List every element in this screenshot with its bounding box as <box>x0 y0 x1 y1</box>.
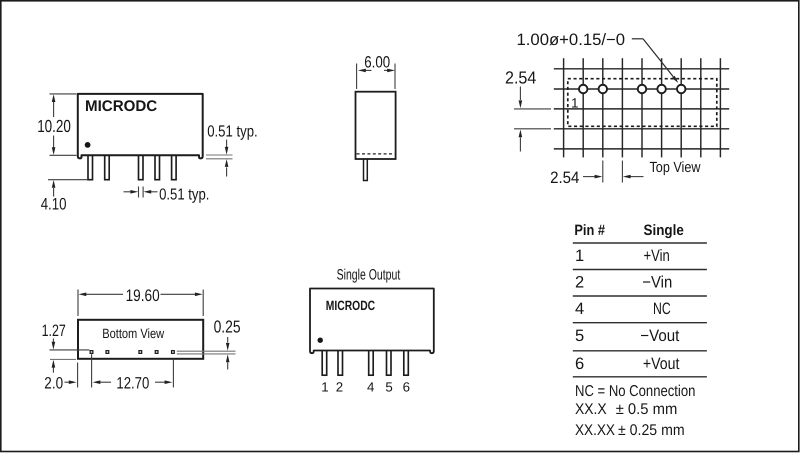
pin hole 2 (top view) <box>599 85 608 94</box>
pin 6 (single output view) <box>404 349 409 375</box>
svg-text:1.27: 1.27 <box>42 322 66 340</box>
pin 5 (single output view) <box>387 349 392 375</box>
svg-text:−Vin: −Vin <box>642 273 672 291</box>
grid line stubs extended below for 2.54 dimension <box>602 161 604 183</box>
pin 4 (side view) <box>139 154 144 180</box>
pin 2 (single output view) <box>338 349 343 375</box>
svg-text:2.54: 2.54 <box>505 68 537 88</box>
svg-text:0.25: 0.25 <box>214 316 241 336</box>
svg-text:NC: NC <box>653 300 671 318</box>
pin1 dot (side view) <box>85 142 91 148</box>
pin pad 6 (bottom view) <box>172 351 175 354</box>
pin pad 1 (bottom view) <box>90 351 93 354</box>
svg-text:4: 4 <box>575 300 584 318</box>
package outline dashed rect (top view) <box>568 79 717 127</box>
svg-text:XX.XX: XX.XX <box>575 422 616 439</box>
svg-text:2: 2 <box>336 379 343 394</box>
svg-text:1: 1 <box>321 379 328 394</box>
svg-text:Pin #: Pin # <box>574 222 605 239</box>
svg-text:Top View: Top View <box>650 160 701 176</box>
dimension 10.20 <box>50 94 77 155</box>
standoff dashed line (end view) <box>357 153 395 155</box>
svg-text:Bottom View: Bottom View <box>102 326 164 341</box>
pin pad 5 (bottom view) <box>155 351 158 354</box>
svg-text:Single: Single <box>644 222 684 239</box>
svg-text:−Vout: −Vout <box>640 327 679 345</box>
svg-text:± 0.25 mm: ± 0.25 mm <box>618 422 685 439</box>
svg-text:4.10: 4.10 <box>41 195 67 214</box>
pin 5 (side view) <box>155 154 160 180</box>
svg-text:2: 2 <box>575 273 584 291</box>
dimension 0.51 typ. (pin width, bottom) <box>124 187 158 198</box>
dimension 2.54 (row pitch, left) <box>514 108 551 110</box>
svg-text:+Vout: +Vout <box>643 355 680 373</box>
module body (side view) <box>78 94 203 158</box>
module body (single output view) <box>310 289 434 354</box>
svg-text:4: 4 <box>367 379 374 394</box>
svg-text:± 0.5 mm: ± 0.5 mm <box>616 401 678 418</box>
pin pad 4 (bottom view) <box>139 351 142 354</box>
pin (end view) <box>364 157 368 181</box>
svg-text:12.70: 12.70 <box>116 374 149 392</box>
pin 1 (single output view) <box>322 349 327 375</box>
pin hole 5 (top view) <box>657 85 666 94</box>
dimension 0.25 <box>177 351 236 354</box>
module body (end view) <box>356 92 396 159</box>
dimension 4.10 <box>48 179 88 181</box>
dimension 19.60 <box>78 290 203 317</box>
pin 4 (single output view) <box>369 349 374 375</box>
pin 2 (side view) <box>105 154 110 180</box>
svg-text:MICRODC: MICRODC <box>85 98 157 115</box>
pin hole 6 (top view) <box>677 85 686 94</box>
svg-text:NC = No Connection: NC = No Connection <box>575 383 695 400</box>
svg-text:10.20: 10.20 <box>37 116 71 136</box>
pin1 dot (single output view) <box>318 338 323 343</box>
svg-text:+Vin: +Vin <box>644 247 670 265</box>
dimension 2.54 (column pitch, bottom) <box>583 176 595 178</box>
dimension 0.51 typ. (case standoff, right) <box>206 155 233 159</box>
svg-text:6.00: 6.00 <box>364 53 390 71</box>
svg-text:1: 1 <box>571 95 579 110</box>
svg-text:Single Output: Single Output <box>337 266 401 283</box>
svg-text:1.00ø+0.15/−0: 1.00ø+0.15/−0 <box>517 31 626 49</box>
svg-text:6: 6 <box>403 379 410 394</box>
pin pad 2 (bottom view) <box>106 351 109 354</box>
svg-text:XX.X: XX.X <box>575 401 607 418</box>
svg-text:2.0: 2.0 <box>44 374 63 392</box>
svg-text:5: 5 <box>385 379 392 394</box>
module body (bottom view) <box>78 320 203 359</box>
svg-text:2.54: 2.54 <box>550 169 579 187</box>
dimension 2.0 and 12.70 <box>65 354 174 387</box>
dimension 6.00 <box>357 64 395 90</box>
grid vertical lines <box>564 58 721 157</box>
pin 1 (side view) <box>88 154 93 180</box>
dimension 1.27 <box>50 349 90 351</box>
svg-text:19.60: 19.60 <box>126 286 160 305</box>
pin number labels 1 2 4 5 6 <box>321 379 410 394</box>
svg-text:1: 1 <box>575 247 584 265</box>
pin hole 4 (top view) <box>638 85 647 94</box>
pin hole 1 (top view) <box>579 85 588 94</box>
svg-text:0.51 typ.: 0.51 typ. <box>159 186 209 203</box>
table rules <box>573 243 707 377</box>
svg-text:MICRODC: MICRODC <box>326 298 375 313</box>
svg-text:6: 6 <box>575 355 584 373</box>
svg-text:0.51 typ.: 0.51 typ. <box>207 123 258 141</box>
pin 6 (side view) <box>172 154 177 180</box>
svg-text:5: 5 <box>575 327 584 345</box>
grid horizontal lines <box>554 69 729 149</box>
